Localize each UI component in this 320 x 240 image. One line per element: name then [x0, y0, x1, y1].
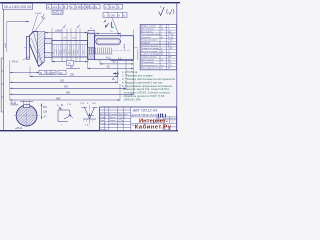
svg-text:19036-81: 19036-81 [141, 43, 151, 45]
svg-text:Вид червяка: Вид червяка [141, 31, 154, 33]
svg-text:8-С: 8-С [168, 45, 172, 47]
svg-text:Б: Б [64, 5, 66, 9]
svg-text:АБТ 720.12 Н3: АБТ 720.12 Н3 [132, 109, 157, 113]
svg-text:⌀45 к6: ⌀45 к6 [15, 127, 23, 130]
svg-text:⌀110: ⌀110 [4, 42, 7, 48]
svg-text:Иванов: Иванов [109, 117, 115, 119]
svg-text:31.42: 31.42 [168, 37, 174, 39]
svg-text:ДцЗ-06.ТМлф 151.001 РЧ: ДцЗ-06.ТМлф 151.001 РЧ [132, 113, 164, 117]
svg-text:д. делит. цилиндра: д. делит. цилиндра [141, 54, 160, 56]
svg-text:Число зубьев: Число зубьев [141, 59, 155, 61]
svg-text:Ход витка: Ход витка [141, 37, 151, 39]
svg-text:Пров.: Пров. [100, 120, 105, 122]
svg-text:Подп.: Подп. [118, 114, 123, 116]
svg-text:⌀25: ⌀25 [43, 111, 48, 114]
svg-text:м: м [95, 6, 97, 9]
svg-text:1.7Б: 1.7Б [67, 104, 72, 106]
svg-text:45°: 45° [52, 72, 56, 75]
svg-text:Разраб.: Разраб. [100, 117, 107, 119]
svg-text:Т.контр.: Т.контр. [100, 123, 107, 125]
svg-text:420: 420 [64, 86, 69, 89]
svg-text:Степень точности: Степень точности [141, 45, 159, 47]
svg-text:А: А [82, 5, 84, 9]
svg-text:Межосевое расст.: Межосевое расст. [141, 65, 159, 67]
svg-text:⌀0.1: ⌀0.1 [52, 5, 58, 9]
svg-text:Модуль осевой: Модуль осевой [141, 25, 157, 28]
svg-text:37°: 37° [168, 68, 171, 70]
svg-text:Б: Б [86, 5, 88, 9]
svg-text:1.6: 1.6 [90, 5, 94, 9]
svg-text:М: М [40, 72, 42, 75]
svg-text:1.7Б: 1.7Б [80, 103, 85, 105]
svg-text:Число витков: Число витков [141, 29, 155, 31]
svg-text:А: А [111, 76, 115, 81]
svg-text:m: m [161, 26, 163, 28]
svg-text:Петров: Петров [109, 120, 115, 122]
svg-text:А: А [118, 5, 120, 9]
svg-text:Кабинет.Ру: Кабинет.Ру [135, 123, 172, 130]
svg-text:0.04: 0.04 [110, 5, 116, 9]
svg-text:8-С: 8-С [168, 43, 172, 45]
svg-text:А-А: А-А [10, 101, 16, 105]
svg-text:⌀45к6: ⌀45к6 [123, 43, 126, 50]
svg-text:1.25: 1.25 [58, 11, 64, 15]
svg-text:Дата: Дата [124, 114, 128, 116]
svg-text:05-4.1302.005 СБ: 05-4.1302.005 СБ [4, 5, 32, 9]
svg-text:11°19': 11°19' [168, 34, 174, 36]
svg-text:Масштаб: Масштаб [170, 118, 178, 120]
svg-text:255: 255 [70, 74, 75, 77]
svg-text:Ra: Ra [53, 11, 57, 15]
svg-text:Обозначение: Обозначение [141, 62, 155, 64]
svg-text:0.05: 0.05 [76, 5, 82, 9]
svg-text:№ докум.: № докум. [109, 113, 117, 116]
svg-text:4°: 4° [87, 103, 89, 105]
svg-text:45°х3: 45°х3 [12, 61, 19, 64]
svg-text:Угол подъема витка: Угол подъема витка [141, 34, 161, 36]
svg-text:Высота до хорды: Высота до хорды [141, 51, 158, 53]
svg-text:305: 305 [60, 80, 65, 83]
svg-text:⌀30к6: ⌀30к6 [55, 30, 62, 33]
svg-text:s: s [161, 48, 162, 50]
svg-text:460: 460 [66, 92, 71, 95]
svg-text:8h9: 8h9 [43, 106, 48, 109]
svg-text:ГОСТ: ГОСТ [168, 40, 174, 42]
svg-text:Н.контр.: Н.контр. [100, 129, 107, 131]
svg-text:19036-81 30%: 19036-81 30% [124, 98, 142, 101]
svg-text:Число зубьев сект.: Число зубьев сект. [141, 68, 160, 70]
svg-text:485*: 485* [56, 97, 61, 100]
svg-text:4х1: 4х1 [106, 56, 111, 59]
svg-text:А: А [103, 19, 107, 24]
svg-text:ViрSарr.соm: ViрSарr.соm [51, 49, 97, 56]
svg-text:Лист: Лист [105, 114, 109, 116]
svg-text:1:1: 1:1 [171, 122, 174, 124]
svg-text:А: А [118, 13, 120, 17]
svg-text:А: А [59, 5, 61, 9]
svg-text:Б: Б [123, 13, 125, 17]
svg-text:Толщина по хорде: Толщина по хорде [141, 48, 160, 50]
svg-text:Б: Б [61, 103, 63, 107]
svg-text:2М: 2М [168, 57, 171, 59]
svg-text:Сопряж. колесо: Сопряж. колесо [141, 57, 157, 59]
svg-text:2ф: 2ф [59, 72, 62, 75]
svg-text:zк: zк [161, 68, 163, 70]
svg-text:0.063: 0.063 [109, 13, 116, 17]
svg-text:pz: pz [161, 37, 163, 39]
svg-text:Сидоров: Сидоров [109, 123, 116, 125]
svg-text:1.6х45°: 1.6х45° [35, 13, 42, 15]
svg-text:Исходный червяк: Исходный червяк [141, 39, 158, 42]
